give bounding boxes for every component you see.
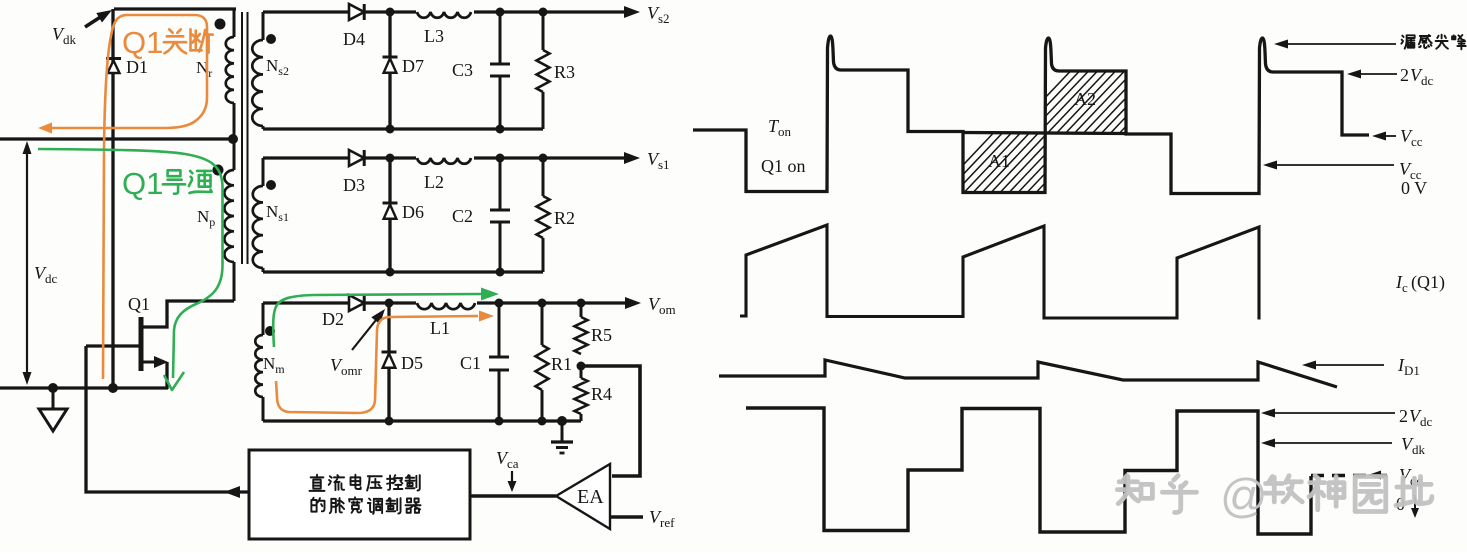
- resistor R1: [541, 303, 544, 345]
- wire divider to EA: [581, 366, 640, 476]
- svg-text:Q1: Q1: [122, 166, 163, 201]
- waveform ID1: [719, 360, 1337, 387]
- node junctions bottom wire: [386, 268, 395, 277]
- op-amp EA: [556, 464, 610, 529]
- node D6 top: [386, 154, 395, 163]
- capacitor C1: [498, 303, 501, 356]
- winding Nm: [262, 303, 265, 335]
- diode D6: [388, 158, 391, 202]
- wire bottom rail: [0, 386, 168, 389]
- transformer winding Nr: [233, 9, 236, 37]
- svg-text:Q1 on: Q1 on: [761, 156, 806, 176]
- node junctions Nm bottom wire: [385, 417, 394, 426]
- wire Nm top: [263, 301, 349, 304]
- waveform Vdk: [746, 408, 1311, 534]
- node D5 top: [385, 299, 394, 308]
- wire Ns1 top: [263, 156, 349, 159]
- svg-text:R4: R4: [591, 384, 612, 404]
- svg-text:R2: R2: [554, 208, 575, 228]
- wire PWM to EA: [470, 494, 556, 497]
- transformer core: [241, 12, 243, 264]
- inductor L2: [416, 150, 474, 161]
- svg-text:R3: R3: [554, 62, 575, 82]
- node C2 top: [496, 154, 505, 163]
- ground symbol right: [561, 421, 564, 441]
- output arrow Vs2: [624, 6, 640, 18]
- orange Nm freewheel loop: [276, 316, 478, 413]
- hatch A2: [1005, 60, 1198, 140]
- resistor R5: [580, 303, 583, 317]
- Vdc measure arrows: [26, 148, 28, 378]
- svg-text:D4: D4: [343, 29, 365, 49]
- svg-text:D7: D7: [402, 56, 424, 76]
- Q1 base wire: [86, 344, 139, 347]
- resistor R3: [542, 12, 545, 50]
- wire rail2 (Vdc+): [0, 137, 233, 140]
- winding Ns2: [262, 12, 265, 40]
- wire Np to Q1 collector: [143, 301, 234, 327]
- A1/A2 shared Vcc-level boundary line: [963, 133, 1126, 134]
- output arrow Vom: [625, 297, 641, 309]
- svg-text:0 V: 0 V: [1401, 178, 1427, 198]
- svg-text:@: @: [1220, 469, 1268, 522]
- svg-text:A1: A1: [988, 151, 1010, 171]
- svg-text:D5: D5: [401, 353, 423, 373]
- node junctions bottom wire: [386, 125, 395, 134]
- wire: [364, 10, 630, 13]
- svg-text:R5: R5: [591, 325, 612, 345]
- node R2 top: [539, 154, 548, 163]
- inductor L1: [416, 295, 477, 306]
- wire Ns2 bottom: [263, 127, 543, 130]
- svg-text:R1: R1: [551, 354, 572, 374]
- hatch A1: [930, 126, 1117, 200]
- diode D1: [106, 59, 121, 74]
- label leakage spike: [1401, 35, 1414, 48]
- orange Q1-off loop: [49, 15, 207, 379]
- node C3 top: [496, 8, 505, 17]
- PWM controller box: [249, 450, 470, 539]
- ground symbol left (open triangle): [52, 388, 55, 409]
- node D1 branch to rail: [108, 383, 118, 393]
- transistor Q1: [139, 317, 144, 371]
- node divider: [577, 362, 586, 371]
- wire top rail: [114, 7, 236, 10]
- node R1 top: [538, 299, 547, 308]
- gate drive wire from PWM: [86, 346, 249, 492]
- output arrow Vs1: [624, 152, 640, 164]
- resistor R4: [580, 366, 583, 378]
- dashed Vdc level: [1311, 474, 1392, 478]
- polarity dot Nr: [215, 19, 226, 30]
- svg-text:D1: D1: [126, 57, 148, 77]
- node D7 top: [386, 8, 395, 17]
- svg-text:D2: D2: [322, 309, 344, 329]
- svg-text:D3: D3: [343, 175, 365, 195]
- diode D5: [387, 303, 390, 351]
- diode D2: [349, 295, 364, 311]
- svg-text:2: 2: [1400, 65, 1409, 85]
- arrow on gate wire (points left): [224, 486, 240, 498]
- svg-text:C3: C3: [452, 60, 473, 80]
- svg-text:C2: C2: [452, 206, 473, 226]
- polarity dot Np: [213, 165, 224, 176]
- node ground tap: [48, 383, 58, 393]
- svg-text:Q1: Q1: [122, 25, 163, 60]
- node junction rail2/transformer: [228, 134, 238, 144]
- waveform Ic(Q1): [740, 225, 1259, 320]
- svg-text:(Q1): (Q1): [1411, 272, 1445, 293]
- wire: [364, 301, 631, 304]
- winding Ns1: [262, 158, 265, 186]
- waveform Vce(Q1): [693, 36, 1369, 194]
- svg-text:A2: A2: [1074, 89, 1096, 109]
- inductor L3: [416, 4, 474, 15]
- diode D7: [388, 12, 391, 56]
- wire Ns1 bottom: [263, 270, 543, 273]
- capacitor C3: [499, 12, 502, 63]
- resistor R2: [542, 158, 545, 196]
- svg-text:D6: D6: [402, 202, 424, 222]
- svg-text:2: 2: [1399, 406, 1408, 426]
- EA ref input: [610, 515, 643, 519]
- wire: [364, 156, 630, 159]
- diode D3: [349, 150, 364, 166]
- capacitor C2: [499, 158, 502, 209]
- svg-text:L1: L1: [430, 318, 450, 338]
- node C1 top: [495, 299, 504, 308]
- svg-text:L3: L3: [424, 26, 444, 46]
- Q1 emitter with arrow: [143, 361, 160, 364]
- wire Nm bottom: [263, 419, 581, 422]
- svg-text:C1: C1: [460, 353, 481, 373]
- wire Ns2 top: [263, 10, 349, 13]
- green Q1-on loop: [38, 149, 223, 378]
- transformer winding Np: [233, 142, 236, 170]
- green Nm current arrow: [273, 294, 482, 347]
- node R3 top: [539, 8, 548, 17]
- svg-text:EA: EA: [577, 486, 604, 508]
- node R5 top: [577, 299, 586, 308]
- wire D1 branch vertical: [111, 9, 114, 388]
- polarity dot Ns2: [266, 34, 276, 44]
- polarity dot Ns1: [266, 180, 276, 190]
- svg-text:L2: L2: [424, 172, 444, 192]
- polarity dot Nm: [265, 326, 275, 336]
- svg-text:Q1: Q1: [128, 294, 150, 314]
- diode D4: [349, 4, 364, 20]
- watermark zhihu: [1117, 469, 1432, 522]
